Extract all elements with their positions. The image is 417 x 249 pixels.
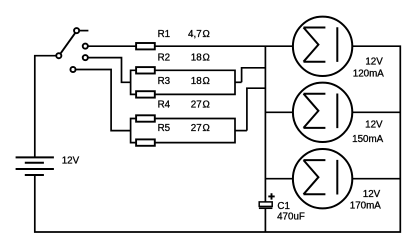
svg-text:18 Ω: 18 Ω bbox=[191, 52, 210, 63]
wire: R2/R3 crossbar bbox=[235, 81, 242, 83]
svg-text:150mA: 150mA bbox=[352, 134, 384, 145]
svg-text:12V: 12V bbox=[365, 120, 383, 131]
resistor R5 bbox=[136, 139, 155, 145]
svg-text:12V: 12V bbox=[365, 57, 383, 68]
wire: capacitor to bottom rail bbox=[264, 209, 266, 232]
wire: lamp2 to right rail bbox=[352, 111, 401, 113]
svg-text:4,7 Ω: 4,7 Ω bbox=[188, 29, 210, 40]
svg-text:27 Ω: 27 Ω bbox=[191, 123, 210, 134]
wire: lamp3 to right rail bbox=[352, 178, 401, 180]
svg-text:C1: C1 bbox=[277, 201, 290, 212]
wire: R2/R3 left bracket bbox=[131, 70, 137, 94]
wire: R4/R5 riser and output to bus bbox=[247, 88, 266, 130]
svg-text:R3: R3 bbox=[158, 76, 171, 87]
capacitor C1 bbox=[259, 193, 275, 208]
wire: stub on switch throw 1 bbox=[80, 30, 89, 32]
svg-text:R5: R5 bbox=[158, 123, 171, 134]
lamp U1 bbox=[293, 17, 352, 76]
svg-text:470uF: 470uF bbox=[277, 212, 305, 223]
wire: R4/R5 left bracket bbox=[131, 119, 137, 143]
lamp U2 bbox=[293, 83, 352, 142]
wire: throw4 to R4/R5 bracket bbox=[76, 70, 131, 131]
wire: battery bottom, bottom rail, right rail, lamp1 right wire bbox=[35, 46, 401, 232]
switch S1 lever bbox=[60, 33, 75, 54]
svg-text:120mA: 120mA bbox=[353, 68, 385, 79]
svg-text:12V: 12V bbox=[62, 156, 80, 167]
wire: bus to lamp2 bbox=[265, 111, 293, 113]
wire: throw3 to R2/R3 bracket bbox=[88, 58, 130, 83]
lamp U3 bbox=[293, 149, 352, 208]
battery B1 12V bbox=[16, 157, 54, 175]
svg-text:R1: R1 bbox=[158, 29, 171, 40]
wire: throw2 to R1 bbox=[88, 45, 136, 47]
switch S1 contacts bbox=[56, 28, 88, 72]
wire: R1 to lamp1 bbox=[155, 45, 294, 47]
resistor R2 bbox=[136, 67, 155, 73]
wire: pole feed and left rail down to battery top bbox=[35, 56, 56, 157]
svg-text:R2: R2 bbox=[158, 52, 171, 63]
resistor R1 bbox=[136, 43, 155, 49]
svg-text:12V: 12V bbox=[363, 189, 381, 200]
svg-text:R4: R4 bbox=[158, 100, 171, 111]
svg-text:170mA: 170mA bbox=[350, 201, 382, 212]
wire: R4 output bbox=[155, 119, 235, 143]
wire: left bus vertical bbox=[264, 46, 266, 202]
svg-text:18 Ω: 18 Ω bbox=[191, 76, 210, 87]
wire: R2 output bbox=[155, 70, 235, 94]
wire: R4/R5 crossbar bbox=[235, 130, 247, 132]
resistor R3 bbox=[136, 91, 155, 97]
wire: R2/R3 riser and output to bus bbox=[242, 68, 266, 83]
svg-text:27 Ω: 27 Ω bbox=[191, 100, 210, 111]
wire: bus to lamp3 bbox=[265, 178, 293, 180]
resistor R4 bbox=[136, 115, 155, 121]
